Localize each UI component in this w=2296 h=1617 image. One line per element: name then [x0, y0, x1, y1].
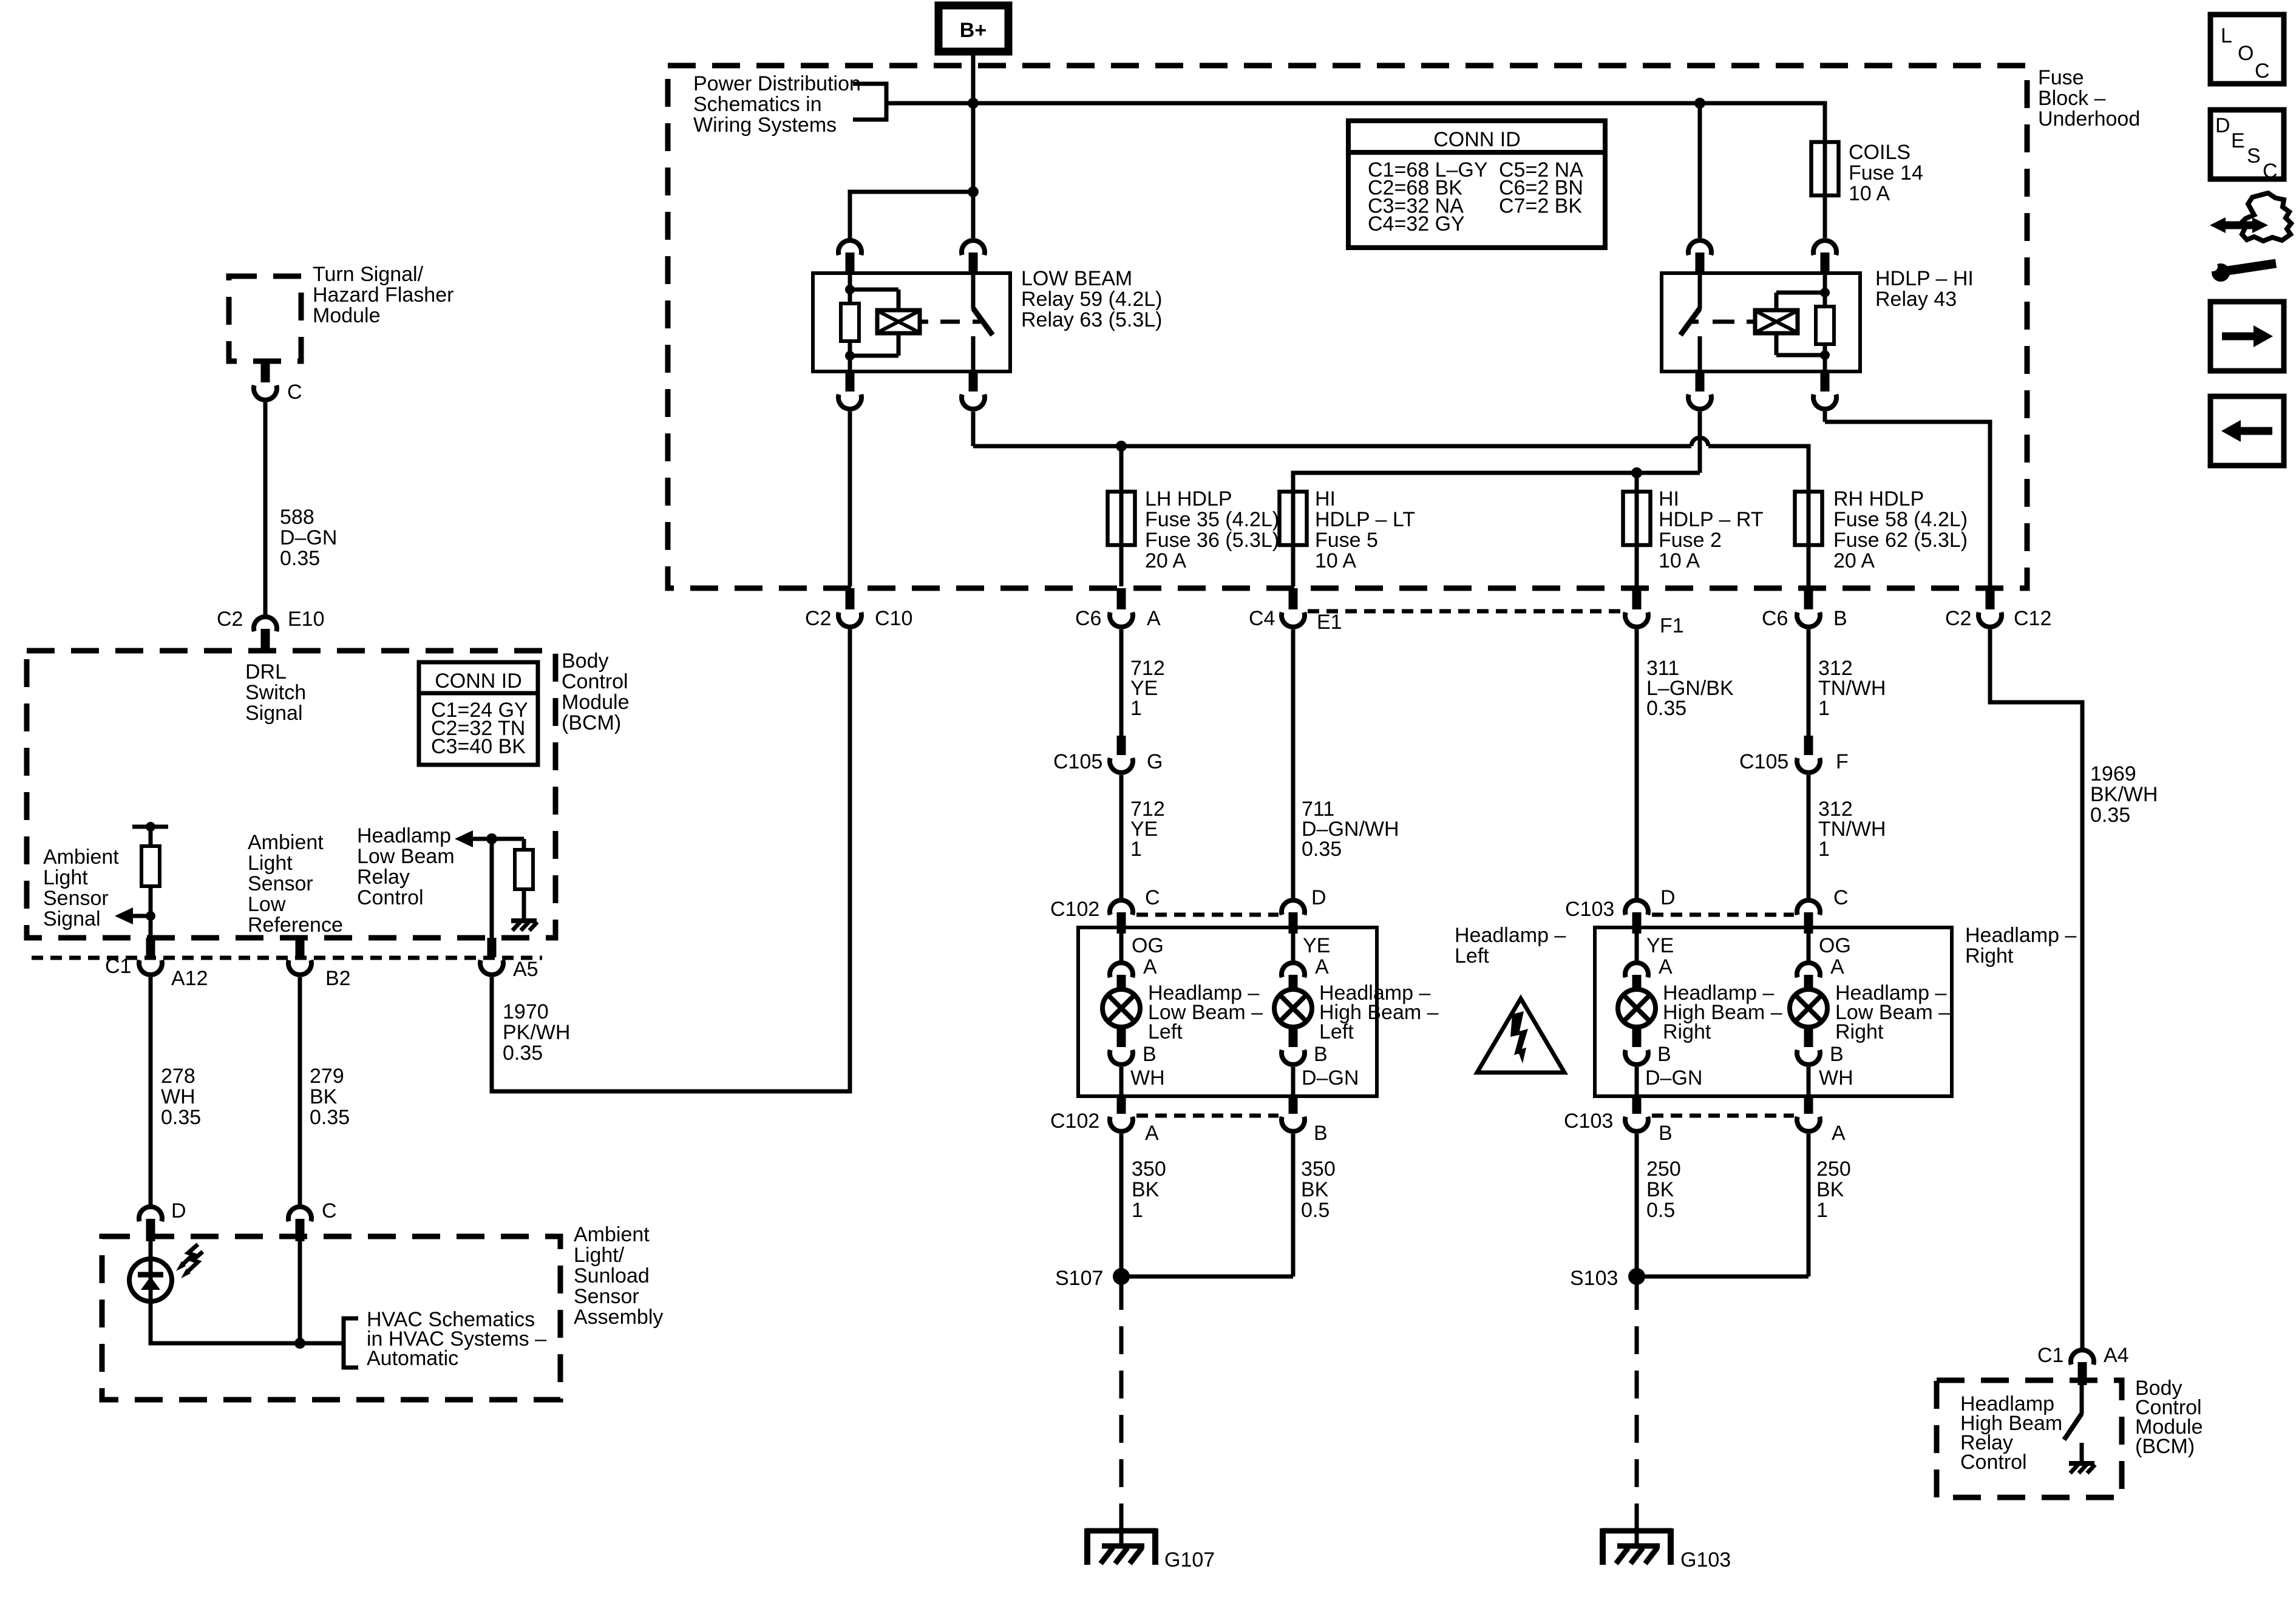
svg-text:Right: Right: [1965, 944, 2014, 968]
svg-text:BK: BK: [310, 1085, 338, 1108]
wire 588 D-GN: [263, 402, 268, 615]
svg-text:OG: OG: [1819, 934, 1851, 957]
connector pin relay bottom right: [1821, 371, 1830, 392]
svg-text:WH: WH: [1819, 1066, 1853, 1090]
svg-text:G103: G103: [1680, 1548, 1731, 1571]
svg-text:1: 1: [1132, 1199, 1143, 1222]
icon arrow previous page: [2210, 396, 2284, 466]
ground G103: [1601, 1528, 1672, 1565]
svg-text:Low Beam: Low Beam: [357, 845, 455, 868]
svg-text:Wiring Systems: Wiring Systems: [693, 114, 837, 137]
svg-text:0.35: 0.35: [1302, 838, 1342, 861]
wire 311 L-GN/BK: [1635, 629, 1639, 899]
svg-text:A5: A5: [513, 958, 538, 981]
svg-text:1970: 1970: [503, 1000, 549, 1023]
svg-text:(BCM): (BCM): [2135, 1435, 2195, 1458]
node relay control junction: [486, 833, 497, 844]
svg-text:10 A: 10 A: [1659, 549, 1700, 572]
svg-text:PK/WH: PK/WH: [503, 1021, 570, 1044]
connector lamp low-left B: [1117, 1027, 1126, 1047]
battery feed B+: [939, 5, 1008, 52]
connector C6/B: [1804, 588, 1813, 609]
svg-text:E: E: [2231, 129, 2245, 152]
svg-text:10 A: 10 A: [1315, 549, 1356, 572]
connector lamp low-left A: [1110, 963, 1133, 977]
svg-text:0.35: 0.35: [161, 1106, 201, 1129]
svg-text:BK: BK: [1646, 1178, 1674, 1201]
svg-text:C: C: [287, 381, 302, 404]
connector C6/A: [1117, 588, 1126, 609]
light arrows into photodiode: [182, 1244, 198, 1265]
connector lamp high-left B: [1289, 1027, 1298, 1047]
svg-text:Left: Left: [1319, 1020, 1354, 1043]
svg-text:Automatic: Automatic: [367, 1347, 458, 1370]
svg-text:Control: Control: [1960, 1451, 2027, 1474]
svg-text:Underhood: Underhood: [2038, 107, 2140, 131]
connector pin relay bottom left: [1696, 371, 1705, 392]
wire relay control: [473, 837, 524, 841]
table CONN ID BCM: [419, 662, 538, 765]
turn signal / hazard flasher module box: [229, 276, 301, 361]
wire 278 WH: [149, 977, 153, 1205]
wire A5 drop: [490, 839, 494, 938]
svg-text:C4=32 GY: C4=32 GY: [1368, 212, 1465, 236]
svg-text:Control: Control: [357, 886, 424, 909]
svg-text:Relay 43: Relay 43: [1875, 288, 1957, 311]
svg-text:0.5: 0.5: [1646, 1199, 1675, 1222]
resistor BCM pull-up: [149, 827, 153, 846]
wire 711 D-GN/WH: [1291, 629, 1296, 899]
svg-text:YE: YE: [1303, 934, 1330, 957]
svg-text:Right: Right: [1835, 1020, 1884, 1043]
svg-text:Assembly: Assembly: [574, 1306, 663, 1329]
svg-text:O: O: [2238, 42, 2254, 65]
svg-text:0.35: 0.35: [503, 1042, 543, 1065]
node ambient light sensor signal: [146, 911, 155, 921]
connector pin relay coil top: [1813, 240, 1836, 255]
node internal rail: [132, 825, 168, 829]
svg-text:Relay 59 (4.2L): Relay 59 (4.2L): [1021, 288, 1162, 311]
body control module (BCM) dashed box: [27, 651, 555, 938]
svg-text:BK: BK: [1816, 1178, 1844, 1201]
wire YE right: [1635, 934, 1639, 961]
wire high beam bus: [1698, 412, 1702, 473]
wire 712 YE lower: [1119, 775, 1124, 899]
connector pin C: [261, 361, 270, 382]
svg-text:20 A: 20 A: [1145, 549, 1186, 572]
svg-text:COILS: COILS: [1849, 141, 1911, 164]
svg-text:BK/WH: BK/WH: [2090, 783, 2158, 806]
connector D: [139, 1207, 162, 1221]
wire D-GN: [1291, 1067, 1296, 1094]
svg-text:(BCM): (BCM): [562, 711, 621, 734]
svg-text:B: B: [1143, 1043, 1156, 1066]
svg-text:Ambient: Ambient: [574, 1223, 650, 1246]
svg-text:Fuse: Fuse: [2038, 66, 2084, 89]
wire dotted BCM connector row: [32, 956, 542, 960]
svg-text:C: C: [2255, 59, 2270, 83]
node B+ junction: [968, 98, 979, 109]
wire dotted C103 D-C: [1652, 913, 1794, 917]
icon arrow next page: [2210, 302, 2284, 371]
lamp headlamp high beam right: [1618, 989, 1656, 1027]
svg-text:D–GN: D–GN: [280, 526, 337, 549]
connector C1/A12: [146, 938, 155, 957]
svg-text:G: G: [1147, 750, 1163, 773]
node low beam feed junction: [968, 186, 979, 197]
svg-text:C103: C103: [1565, 898, 1614, 921]
wire dotted C102 C-D: [1136, 913, 1279, 917]
wire WH right: [1807, 1067, 1811, 1094]
wire hop over high beam wire: [1691, 438, 1708, 446]
bracket to power distribution: [853, 84, 886, 120]
relay HDLP-HI Relay 43 box: [1662, 273, 1860, 371]
svg-text:CONN ID: CONN ID: [1433, 128, 1521, 151]
svg-text:1969: 1969: [2090, 762, 2136, 785]
wire to ground G107: [1119, 1282, 1124, 1516]
connector F1: [1632, 588, 1642, 609]
svg-text:E1: E1: [1317, 611, 1342, 634]
svg-text:Power Distribution: Power Distribution: [693, 72, 861, 95]
svg-text:Sensor: Sensor: [43, 887, 109, 910]
svg-text:C2: C2: [217, 608, 243, 631]
svg-text:WH: WH: [161, 1085, 195, 1108]
svg-text:C7=2 BK: C7=2 BK: [1499, 194, 1582, 217]
connector C103/B: [1632, 1096, 1642, 1114]
fuse HI HDLP-LT Fuse 5 10A: [1291, 473, 1296, 586]
wire 312 TN/WH upper: [1807, 629, 1811, 736]
photodiode ambient light sensor: [151, 1241, 344, 1343]
svg-text:C1: C1: [105, 955, 131, 978]
connector lamp high-left A: [1282, 963, 1305, 977]
connector lamp high-right A: [1625, 963, 1648, 977]
connector C103/C: [1797, 900, 1820, 915]
svg-text:278: 278: [161, 1065, 195, 1088]
svg-text:G107: G107: [1164, 1548, 1215, 1571]
svg-text:C102: C102: [1050, 1110, 1099, 1133]
svg-text:HDLP – HI: HDLP – HI: [1875, 267, 1974, 290]
svg-text:Hazard Flasher: Hazard Flasher: [313, 283, 453, 307]
svg-text:C103: C103: [1564, 1110, 1613, 1133]
svg-text:A: A: [1147, 607, 1161, 630]
svg-text:Signal: Signal: [245, 702, 303, 725]
wire WH: [1119, 1067, 1124, 1094]
node HDLP-HI relay feed junction: [1694, 98, 1705, 109]
svg-text:B+: B+: [960, 19, 987, 42]
svg-text:C: C: [2263, 160, 2278, 183]
headlamp right assembly box: [1595, 927, 1952, 1096]
relay solenoid coil: [850, 288, 898, 292]
svg-text:LH HDLP: LH HDLP: [1145, 487, 1232, 510]
svg-text:BK: BK: [1301, 1178, 1329, 1201]
svg-text:Reference: Reference: [248, 914, 343, 937]
svg-text:WH: WH: [1130, 1066, 1165, 1090]
svg-text:Body: Body: [562, 649, 609, 673]
svg-text:F1: F1: [1660, 614, 1684, 637]
svg-text:Relay 63 (5.3L): Relay 63 (5.3L): [1021, 308, 1162, 331]
connector C105/G: [1117, 736, 1126, 755]
svg-text:LOW BEAM: LOW BEAM: [1021, 267, 1132, 290]
svg-text:D: D: [171, 1199, 186, 1222]
svg-text:Module: Module: [313, 304, 381, 327]
svg-text:Fuse 5: Fuse 5: [1315, 529, 1378, 552]
svg-text:A: A: [1143, 955, 1157, 978]
svg-text:C2: C2: [1945, 607, 1971, 630]
svg-text:C4: C4: [1249, 607, 1275, 630]
svg-text:B2: B2: [325, 967, 351, 990]
svg-text:Fuse 62 (5.3L): Fuse 62 (5.3L): [1833, 529, 1968, 552]
node low beam to fuse 35: [1116, 441, 1127, 452]
svg-text:C102: C102: [1050, 898, 1099, 921]
ground G107: [1086, 1528, 1156, 1565]
svg-text:B: B: [1314, 1122, 1328, 1145]
svg-text:RH HDLP: RH HDLP: [1833, 487, 1924, 510]
svg-text:Ambient: Ambient: [43, 846, 119, 869]
svg-text:B: B: [1314, 1043, 1328, 1066]
svg-text:350: 350: [1132, 1158, 1166, 1181]
svg-text:0.35: 0.35: [310, 1106, 350, 1129]
svg-text:Signal: Signal: [43, 907, 101, 931]
wire C drop: [298, 1241, 302, 1343]
svg-text:0.35: 0.35: [280, 547, 320, 570]
bracket HVAC schematics: [344, 1318, 358, 1368]
svg-text:Fuse 36 (5.3L): Fuse 36 (5.3L): [1145, 529, 1279, 552]
wire low beam relay feed: [850, 192, 973, 239]
svg-text:D: D: [2215, 114, 2230, 137]
svg-text:BK: BK: [1132, 1178, 1160, 1201]
svg-text:10 A: 10 A: [1849, 182, 1890, 205]
svg-text:0.35: 0.35: [2090, 804, 2130, 827]
wire 350 BK 0.5: [1291, 1134, 1296, 1276]
svg-text:Switch: Switch: [245, 681, 306, 704]
svg-text:Ambient: Ambient: [248, 831, 324, 854]
wire 1970 PK/WH: [492, 629, 850, 1091]
svg-text:HDLP – RT: HDLP – RT: [1659, 508, 1764, 531]
ground internal BCM: [511, 921, 537, 931]
wire 250 BK 1: [1807, 1134, 1811, 1276]
svg-text:0.5: 0.5: [1301, 1199, 1330, 1222]
svg-text:250: 250: [1646, 1158, 1681, 1181]
connector C102/A: [1117, 1096, 1126, 1114]
svg-text:Fuse 35 (4.2L): Fuse 35 (4.2L): [1145, 508, 1279, 531]
svg-text:20 A: 20 A: [1833, 549, 1875, 572]
svg-text:C3=40 BK: C3=40 BK: [431, 735, 526, 758]
svg-text:279: 279: [310, 1065, 344, 1088]
wire dotted C103 B-A: [1652, 1114, 1794, 1118]
svg-text:A: A: [1830, 955, 1844, 978]
connector C2/E10: [254, 617, 277, 631]
wire HDLP-HI switch feed: [1698, 103, 1702, 238]
svg-text:1: 1: [1816, 1199, 1828, 1222]
svg-text:A12: A12: [171, 967, 208, 990]
svg-text:C6: C6: [1075, 607, 1101, 630]
node HVAC junction: [294, 1338, 305, 1349]
svg-text:HI: HI: [1659, 487, 1679, 510]
svg-text:S103: S103: [1570, 1267, 1618, 1290]
svg-text:Left: Left: [1455, 944, 1489, 968]
connector lamp high-right B: [1632, 1027, 1642, 1047]
wire 312 TN/WH lower: [1807, 775, 1811, 899]
wire relay 43 output: [1823, 412, 1827, 422]
svg-text:L: L: [2221, 24, 2232, 47]
svg-text:Headlamp –: Headlamp –: [1965, 924, 2076, 947]
svg-text:C12: C12: [2014, 607, 2051, 630]
svg-text:1: 1: [1130, 838, 1142, 861]
connector C2/C10: [848, 412, 852, 586]
ambient light/sunload sensor assembly box: [102, 1236, 560, 1400]
lamp headlamp low beam left: [1102, 989, 1140, 1027]
svg-text:S: S: [2247, 144, 2261, 168]
wire 350 BK 1: [1119, 1134, 1124, 1276]
connector lamp low-right A: [1797, 963, 1820, 977]
svg-text:A: A: [1145, 1122, 1159, 1145]
connector C103/A: [1804, 1096, 1813, 1114]
svg-text:Sensor: Sensor: [248, 872, 313, 895]
svg-text:Module: Module: [562, 691, 630, 714]
connector pin relay switch top: [1688, 240, 1711, 255]
svg-text:Fuse 2: Fuse 2: [1659, 529, 1722, 552]
wire to ground G103: [1635, 1282, 1639, 1516]
lamp headlamp high beam left: [1274, 989, 1312, 1027]
wire OG right: [1807, 934, 1811, 961]
svg-text:C: C: [1833, 886, 1849, 909]
ground internal BCM2: [2069, 1463, 2095, 1473]
svg-text:C: C: [322, 1199, 337, 1222]
svg-text:B: B: [1657, 1043, 1671, 1066]
relay solenoid coil: [1776, 291, 1825, 295]
svg-text:Light: Light: [248, 852, 293, 875]
lamp headlamp low beam right: [1790, 989, 1827, 1027]
connector pin relay 86: [838, 240, 861, 255]
connector C2/C12: [1986, 588, 1995, 609]
wire 279 BK: [298, 977, 302, 1205]
svg-text:1: 1: [1818, 838, 1830, 861]
svg-text:DRL: DRL: [245, 660, 287, 683]
wire B+ down: [971, 52, 976, 238]
fuse LH HDLP Fuse 35/36 20A: [1119, 446, 1124, 586]
svg-text:Headlamp –: Headlamp –: [1455, 924, 1566, 947]
connector C102/C: [1110, 900, 1133, 915]
svg-text:CONN ID: CONN ID: [435, 670, 522, 693]
connector pin relay 85: [962, 240, 985, 255]
relay switch: [1698, 273, 1702, 309]
svg-text:F: F: [1836, 750, 1849, 773]
svg-text:250: 250: [1816, 1158, 1851, 1181]
wire OG: [1119, 934, 1124, 961]
svg-text:OG: OG: [1132, 934, 1164, 957]
svg-text:Relay: Relay: [357, 866, 410, 889]
relay coil resistor: [848, 273, 852, 303]
svg-text:Light: Light: [43, 866, 88, 889]
icon diagnostic hand and wrench: [2208, 193, 2291, 282]
svg-text:HI: HI: [1315, 487, 1336, 510]
svg-text:C10: C10: [875, 607, 912, 630]
svg-text:Schematics in: Schematics in: [693, 93, 822, 116]
warning triangle: [1477, 998, 1564, 1073]
connector pin relay 87 (left): [846, 371, 855, 392]
svg-text:C: C: [1145, 886, 1160, 909]
svg-text:YE: YE: [1646, 934, 1674, 957]
connector pin relay 30 (right): [969, 371, 978, 392]
svg-text:Control: Control: [562, 670, 628, 693]
headlamp left assembly box: [1078, 927, 1377, 1096]
relay LOW BEAM Relay 59/63 box: [813, 273, 1010, 371]
svg-text:Headlamp: Headlamp: [357, 824, 451, 847]
svg-text:B: B: [1659, 1122, 1673, 1145]
svg-text:C2: C2: [805, 607, 831, 630]
resistor BCM driver: [522, 839, 526, 850]
svg-text:Fuse 58 (4.2L): Fuse 58 (4.2L): [1833, 508, 1968, 531]
node high beam to fuse 2: [1631, 467, 1642, 478]
wire YE: [1291, 934, 1296, 961]
fuse COILS Fuse 14 10A: [1823, 142, 1827, 238]
svg-text:B: B: [1830, 1043, 1844, 1066]
svg-text:C105: C105: [1053, 750, 1102, 773]
svg-text:B: B: [1833, 607, 1847, 630]
svg-text:C105: C105: [1739, 750, 1788, 773]
wire bus B+ feed: [886, 103, 1825, 142]
svg-text:C6: C6: [1762, 607, 1788, 630]
switch headlamp high beam relay control: [2080, 1385, 2084, 1414]
svg-text:A4: A4: [2104, 1344, 2129, 1367]
svg-text:S107: S107: [1055, 1267, 1103, 1290]
svg-text:D–GN: D–GN: [1302, 1066, 1359, 1090]
connector A5: [487, 938, 497, 957]
svg-text:D: D: [1311, 886, 1326, 909]
relay actuator dashed link: [1747, 320, 1755, 324]
svg-text:0.35: 0.35: [1646, 697, 1686, 720]
svg-text:A: A: [1315, 955, 1329, 978]
svg-text:C1: C1: [2037, 1344, 2063, 1367]
wire 250 BK 0.5: [1635, 1134, 1639, 1276]
wire low beam bus: [971, 412, 976, 446]
icon DESC box: [2210, 110, 2284, 179]
svg-text:Block –: Block –: [2038, 87, 2106, 110]
connector C105/F: [1804, 736, 1813, 755]
svg-text:Turn Signal/: Turn Signal/: [313, 263, 424, 286]
body control module (BCM) 2 dashed box: [1937, 1380, 2122, 1497]
wire 712 YE upper: [1119, 629, 1124, 736]
wire 1969 BK/WH: [1990, 629, 2082, 1349]
svg-text:A: A: [1832, 1122, 1846, 1145]
svg-text:588: 588: [280, 506, 314, 529]
svg-text:Fuse 14: Fuse 14: [1849, 161, 1923, 185]
table CONN ID fuse block: [1348, 121, 1605, 248]
relay actuator dashed link: [920, 320, 928, 324]
connector C102/D: [1282, 900, 1305, 915]
svg-text:E10: E10: [288, 608, 325, 631]
svg-text:A: A: [1659, 955, 1673, 978]
node splice S103: [1637, 1275, 1809, 1279]
wire to signal arrow: [133, 914, 151, 918]
connector B2: [296, 938, 305, 957]
svg-text:D: D: [1660, 886, 1676, 909]
svg-text:1: 1: [1818, 697, 1830, 720]
svg-text:Light/: Light/: [574, 1244, 625, 1267]
node splice S107: [1121, 1275, 1293, 1279]
fuse RH HDLP Fuse 58/62 20A: [1807, 446, 1811, 586]
fuse HI HDLP-RT Fuse 2 10A: [1635, 473, 1639, 586]
svg-text:Low: Low: [248, 893, 286, 916]
relay switch: [971, 273, 976, 309]
svg-text:HDLP – LT: HDLP – LT: [1315, 508, 1415, 531]
connector lamp low-right B: [1804, 1027, 1813, 1047]
wire dotted C102 A-B: [1136, 1114, 1279, 1118]
svg-text:350: 350: [1301, 1158, 1336, 1181]
wire dotted E1-F1: [1308, 609, 1622, 614]
connector C4/E1: [1289, 588, 1298, 609]
relay coil resistor: [1823, 273, 1827, 307]
